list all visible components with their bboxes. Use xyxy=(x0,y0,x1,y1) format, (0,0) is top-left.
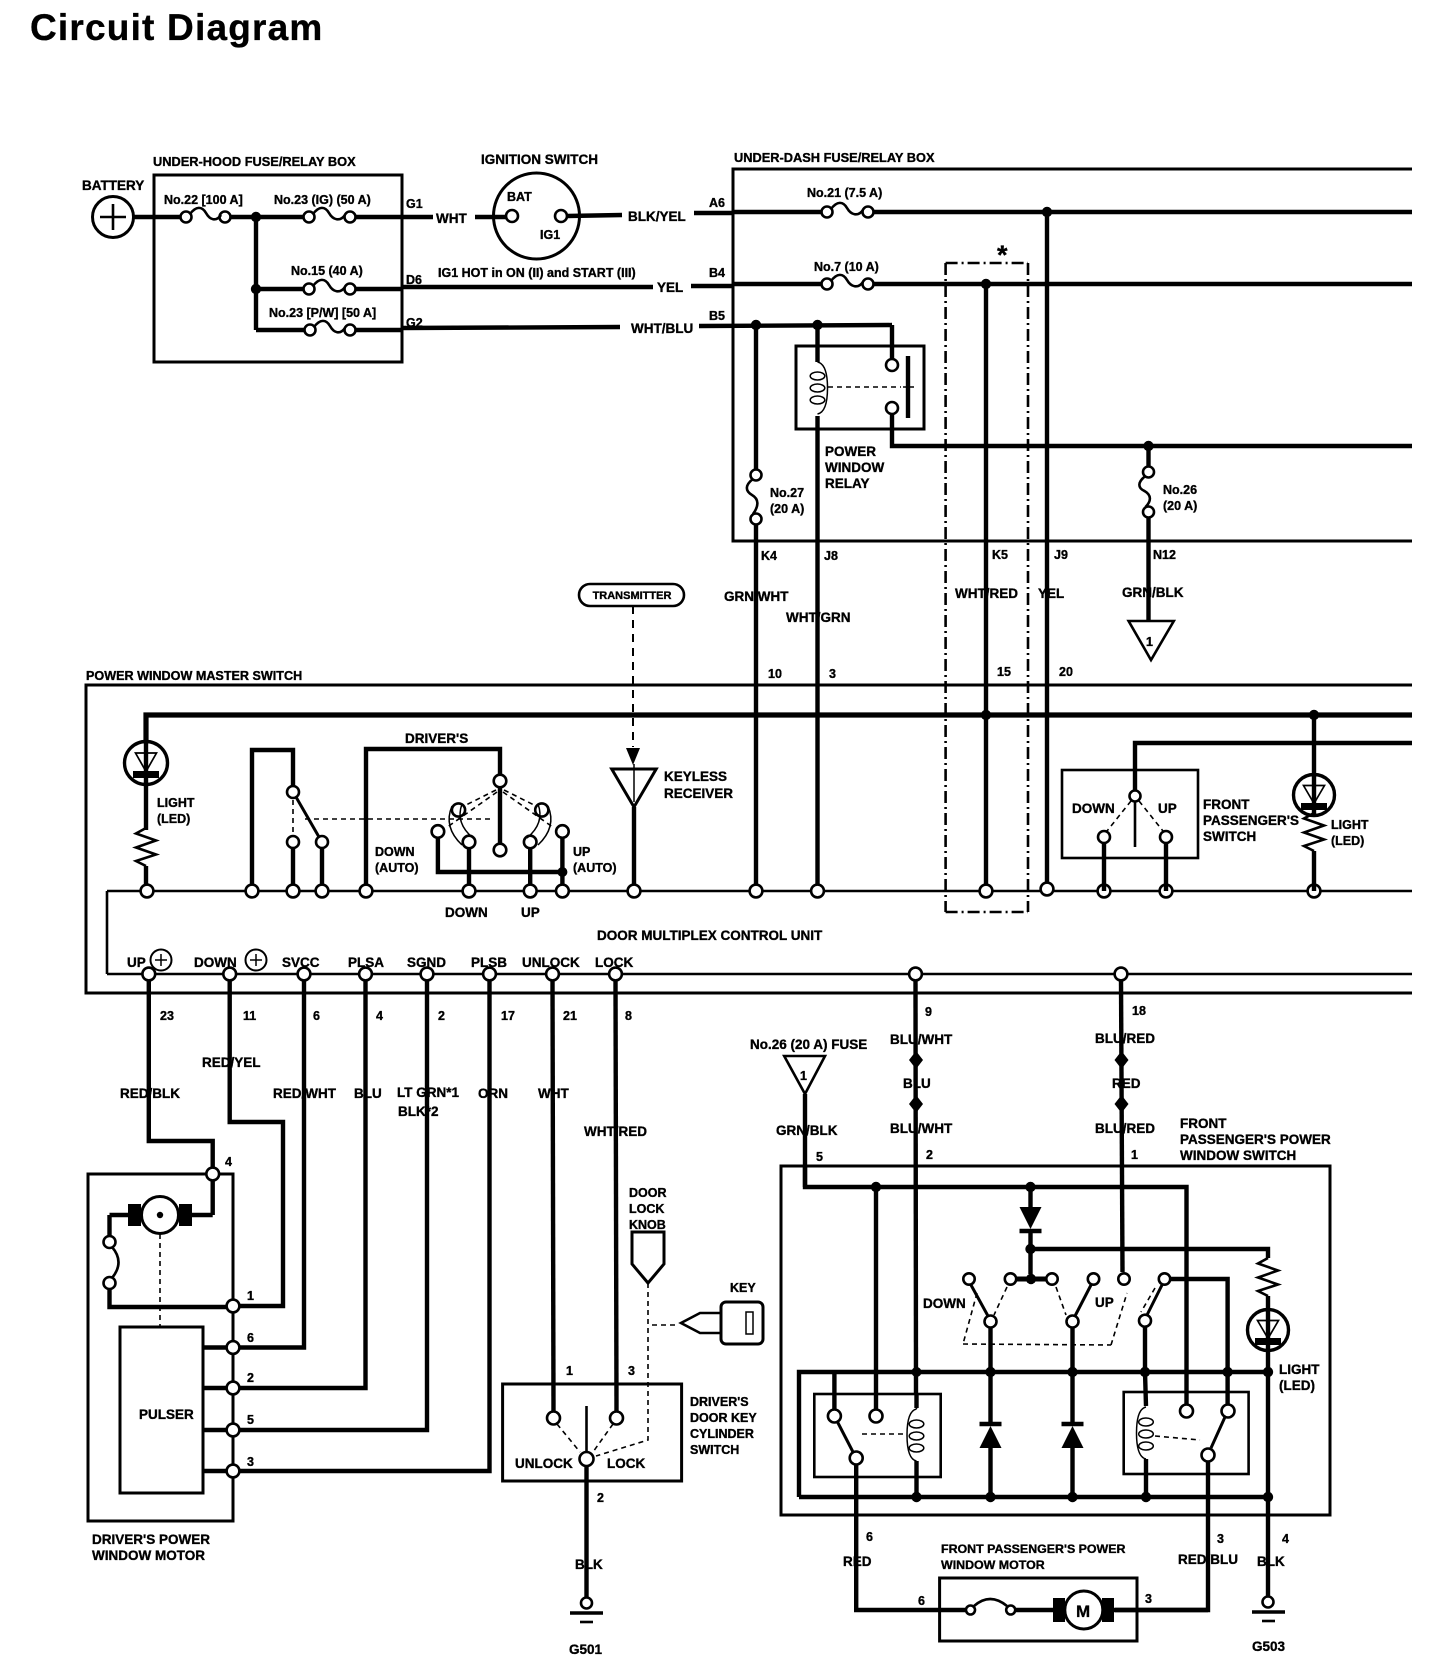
wire J9 to master switch xyxy=(1045,541,1049,889)
svg-text:DOWN: DOWN xyxy=(923,1296,966,1311)
svg-text:2: 2 xyxy=(438,1009,445,1023)
svg-text:KEY: KEY xyxy=(730,1281,756,1295)
svg-text:YEL: YEL xyxy=(1038,586,1064,601)
node K5 on upper bus xyxy=(981,710,991,720)
svg-text:3: 3 xyxy=(1217,1532,1224,1546)
wire diode junction to LED resistor xyxy=(1031,1249,1269,1258)
svg-text:LOCK: LOCK xyxy=(607,1456,645,1471)
svg-text:RED/BLU: RED/BLU xyxy=(1178,1552,1238,1567)
svg-text:N12: N12 xyxy=(1153,548,1176,562)
power window relay xyxy=(796,325,924,541)
svg-text:LIGHT: LIGHT xyxy=(157,796,195,810)
svg-text:3: 3 xyxy=(628,1364,635,1378)
svg-text:IG1: IG1 xyxy=(540,228,560,242)
svg-text:(LED): (LED) xyxy=(1331,834,1364,848)
svg-text:21: 21 xyxy=(563,1009,577,1023)
svg-text:WHT: WHT xyxy=(436,211,467,226)
svg-text:BLU/RED: BLU/RED xyxy=(1095,1031,1155,1046)
LED light passenger side xyxy=(1294,715,1369,891)
svg-text:3: 3 xyxy=(247,1455,254,1469)
key xyxy=(681,1281,763,1344)
svg-text:RED: RED xyxy=(1112,1076,1141,1091)
svg-text:No.26: No.26 xyxy=(1163,483,1197,497)
svg-text:BLK: BLK xyxy=(1257,1554,1285,1569)
wire K5 to master switch xyxy=(984,541,988,891)
svg-text:Circuit Diagram: Circuit Diagram xyxy=(30,7,324,48)
svg-text:BLK/YEL: BLK/YEL xyxy=(628,209,686,224)
diode D3 xyxy=(1062,1372,1084,1497)
nodes on control unit bottom xyxy=(142,968,155,981)
svg-text:No.23 (IG) (50 A): No.23 (IG) (50 A) xyxy=(274,193,371,207)
circuit breaker in passenger motor xyxy=(941,1599,1053,1615)
svg-text:No.21 (7.5 A): No.21 (7.5 A) xyxy=(807,186,882,200)
under-dash fuse/relay box xyxy=(733,150,1412,541)
svg-text:4: 4 xyxy=(376,1009,383,1023)
fuse No.23 (P/W) (50 A) xyxy=(256,306,376,336)
svg-text:6: 6 xyxy=(866,1530,873,1544)
svg-text:1: 1 xyxy=(1146,635,1153,649)
svg-text:PASSENGER'S: PASSENGER'S xyxy=(1203,813,1299,828)
node LED bottom xyxy=(1263,1492,1273,1502)
wire pin9 BLU/WHT down xyxy=(890,980,953,1394)
node feed/diode xyxy=(1025,1182,1035,1192)
svg-text:UP: UP xyxy=(573,845,590,859)
driver's switch feed wire xyxy=(366,749,500,891)
wire B4 to right edge xyxy=(873,282,1412,286)
svg-text:WHT/GRN: WHT/GRN xyxy=(786,610,851,625)
wire N12 xyxy=(1146,541,1150,621)
wire relay2 moving contact output xyxy=(1115,1462,1208,1610)
LED light driver xyxy=(125,715,195,830)
svg-text:17: 17 xyxy=(501,1009,515,1023)
node bus relay2 contact xyxy=(1222,1367,1232,1377)
svg-text:ORN: ORN xyxy=(478,1086,508,1101)
wire pin18 BLU/RED down xyxy=(1095,980,1155,1272)
wire battery to under-hood box xyxy=(133,215,186,219)
wire B5 down to relay contact xyxy=(890,325,894,359)
svg-text:BLU/WHT: BLU/WHT xyxy=(890,1121,953,1136)
wire A6 bus xyxy=(733,210,827,214)
svg-text:LIGHT: LIGHT xyxy=(1279,1362,1320,1377)
svg-text:SWITCH: SWITCH xyxy=(690,1443,739,1457)
transmitter xyxy=(579,584,684,606)
wire A6 to right edge xyxy=(873,210,1412,214)
svg-text:BLU: BLU xyxy=(354,1086,382,1101)
resistor below LED xyxy=(136,828,156,891)
svg-text:10: 10 xyxy=(768,667,782,681)
control unit pin names xyxy=(127,950,633,971)
svg-text:M: M xyxy=(1076,1602,1090,1621)
dashed key linkage xyxy=(652,1324,677,1326)
wire GRN/BLK pin5 xyxy=(803,1094,807,1187)
svg-text:G503: G503 xyxy=(1252,1639,1286,1654)
svg-text:*: * xyxy=(997,240,1008,270)
node A6/J9 junction xyxy=(1042,207,1052,217)
dashed transmitter signal xyxy=(632,606,634,747)
stub down contact A xyxy=(988,1327,992,1372)
svg-text:WHT/RED: WHT/RED xyxy=(955,586,1018,601)
wire LED to pin4 BLK ground xyxy=(1266,1372,1270,1597)
svg-text:No.26 (20 A) FUSE: No.26 (20 A) FUSE xyxy=(750,1037,867,1052)
svg-text:3: 3 xyxy=(1145,1592,1152,1606)
node 3 xyxy=(227,1465,240,1478)
svg-text:No.27: No.27 xyxy=(770,486,804,500)
node bus A xyxy=(985,1367,995,1377)
svg-text:FRONT: FRONT xyxy=(1203,797,1250,812)
svg-text:BAT: BAT xyxy=(507,190,532,204)
lower contacts xyxy=(985,1316,997,1328)
svg-text:(AUTO): (AUTO) xyxy=(375,861,419,875)
svg-text:G1: G1 xyxy=(406,197,423,211)
svg-text:RED/WHT: RED/WHT xyxy=(273,1086,337,1101)
svg-text:No.23 [P/W] [50 A]: No.23 [P/W] [50 A] xyxy=(269,306,376,320)
fuse No.15 (40 A) xyxy=(256,264,363,295)
svg-text:WINDOW MOTOR: WINDOW MOTOR xyxy=(92,1548,205,1563)
node 6 xyxy=(227,1341,240,1354)
svg-text:DOOR MULTIPLEX CONTROL UNIT: DOOR MULTIPLEX CONTROL UNIT xyxy=(597,928,823,943)
svg-text:(AUTO): (AUTO) xyxy=(573,861,617,875)
svg-text:8: 8 xyxy=(625,1009,632,1023)
connector triangle 1 (N12) xyxy=(1129,621,1174,660)
node D2 bottom xyxy=(985,1492,995,1502)
svg-text:UNLOCK: UNLOCK xyxy=(515,1456,573,1471)
svg-text:BLU/RED: BLU/RED xyxy=(1095,1121,1155,1136)
svg-text:GRN/BLK: GRN/BLK xyxy=(776,1123,838,1138)
svg-text:PULSER: PULSER xyxy=(139,1407,194,1422)
svg-text:UP: UP xyxy=(521,905,540,920)
diode D1 (top) xyxy=(1020,1187,1042,1274)
svg-text:2: 2 xyxy=(597,1491,604,1505)
svg-text:RELAY: RELAY xyxy=(825,476,870,491)
svg-text:PASSENGER'S POWER: PASSENGER'S POWER xyxy=(1180,1132,1331,1147)
nodes on control unit top bus xyxy=(141,885,154,898)
svg-text:IGNITION SWITCH: IGNITION SWITCH xyxy=(481,152,598,167)
svg-text:DRIVER'S: DRIVER'S xyxy=(405,731,468,746)
svg-text:1: 1 xyxy=(1131,1148,1138,1162)
feed wire inside switch xyxy=(805,1166,1187,1405)
wire G2 / WHT/BLU xyxy=(355,328,402,332)
keyless receiver antenna xyxy=(612,764,734,891)
node 4 on motor box xyxy=(206,1168,219,1181)
wire J9 vertical xyxy=(1045,212,1049,541)
node B5/K4 junction xyxy=(751,320,761,330)
wire J8 to master switch xyxy=(815,541,819,891)
down(auto)/up(auto) wire xyxy=(375,838,617,891)
wire K4 to master switch xyxy=(754,541,758,891)
svg-text:BLU: BLU xyxy=(903,1076,931,1091)
svg-text:LIGHT: LIGHT xyxy=(1331,818,1369,832)
node 1 xyxy=(227,1300,240,1313)
arrowhead xyxy=(626,748,640,765)
door lock knob xyxy=(629,1186,667,1283)
wire relay1 top-left contact to bus xyxy=(832,1372,836,1409)
wire pin4 to motor node 2 xyxy=(240,980,366,1388)
svg-text:No.7 (10 A): No.7 (10 A) xyxy=(814,260,879,274)
svg-text:(20 A): (20 A) xyxy=(1163,499,1197,513)
svg-text:LOCK: LOCK xyxy=(629,1202,664,1216)
svg-text:DOOR KEY: DOOR KEY xyxy=(690,1411,757,1425)
wire pin17 to motor node 3 xyxy=(240,980,490,1471)
node passenger LED on upper bus xyxy=(1309,710,1319,720)
node feed/relay1 xyxy=(871,1182,881,1192)
node 2 xyxy=(227,1382,240,1395)
svg-text:UP: UP xyxy=(1095,1295,1114,1310)
wire fuse22 to junction xyxy=(230,215,256,219)
resistor passenger LED xyxy=(1258,1258,1278,1296)
svg-text:No.15 (40 A): No.15 (40 A) xyxy=(291,264,363,278)
svg-text:RED/YEL: RED/YEL xyxy=(202,1055,261,1070)
svg-text:WHT/BLU: WHT/BLU xyxy=(631,321,693,336)
wire D6 / YEL xyxy=(355,287,402,291)
svg-text:UNDER-HOOD FUSE/RELAY BOX: UNDER-HOOD FUSE/RELAY BOX xyxy=(153,154,356,169)
svg-text:11: 11 xyxy=(243,1009,256,1023)
wire down contact xyxy=(467,848,471,891)
wire B4 bus xyxy=(733,282,827,286)
svg-text:UNDER-DASH FUSE/RELAY BOX: UNDER-DASH FUSE/RELAY BOX xyxy=(734,150,935,165)
passenger motor M2 xyxy=(1053,1591,1208,1629)
svg-text:RED: RED xyxy=(843,1554,872,1569)
svg-text:J9: J9 xyxy=(1054,548,1068,562)
wire pin21 to key switch xyxy=(553,980,554,1411)
LED light passenger switch xyxy=(1248,1296,1321,1393)
ground G501 xyxy=(569,1598,603,1658)
node 5 xyxy=(227,1424,240,1437)
fuse No.23 (IG) (50 A) xyxy=(274,193,371,223)
svg-text:4: 4 xyxy=(225,1155,232,1169)
svg-text:POWER WINDOW MASTER SWITCH: POWER WINDOW MASTER SWITCH xyxy=(86,669,302,683)
front passenger's switch xyxy=(1062,770,1198,858)
svg-text:DRIVER'S POWER: DRIVER'S POWER xyxy=(92,1532,210,1547)
pulser stubs to nodes xyxy=(203,1345,227,1349)
svg-text:B4: B4 xyxy=(709,266,725,280)
vertical branch under-hood xyxy=(254,217,258,330)
svg-text:WINDOW SWITCH: WINDOW SWITCH xyxy=(1180,1148,1296,1163)
svg-text:SWITCH: SWITCH xyxy=(1203,829,1256,844)
control unit left edge xyxy=(106,891,109,974)
svg-text:BATTERY: BATTERY xyxy=(82,178,144,193)
svg-text:GRN/WHT: GRN/WHT xyxy=(724,589,789,604)
svg-text:CYLINDER: CYLINDER xyxy=(690,1427,754,1441)
svg-text:No.22 [100 A]: No.22 [100 A] xyxy=(164,193,243,207)
svg-text:RECEIVER: RECEIVER xyxy=(664,786,733,801)
svg-text:WHT/RED: WHT/RED xyxy=(584,1124,647,1139)
svg-text:K5: K5 xyxy=(992,548,1008,562)
svg-text:POWER: POWER xyxy=(825,444,876,459)
LED switch feed wire xyxy=(252,750,293,891)
svg-text:K4: K4 xyxy=(761,549,777,563)
wire K5 vertical xyxy=(984,284,988,541)
svg-text:LT GRN*1: LT GRN*1 xyxy=(397,1085,459,1100)
svg-text:FRONT: FRONT xyxy=(1180,1116,1227,1131)
svg-text:1: 1 xyxy=(800,1069,807,1083)
svg-text:2: 2 xyxy=(926,1148,933,1162)
fuse No.26 (20 A) xyxy=(1139,446,1197,541)
node coil2 bottom xyxy=(1141,1492,1151,1502)
svg-text:DOWN: DOWN xyxy=(375,845,415,859)
svg-text:5: 5 xyxy=(816,1150,823,1164)
svg-text:3: 3 xyxy=(829,667,836,681)
wire pin6 to motor node 6 xyxy=(240,980,304,1348)
svg-text:KNOB: KNOB xyxy=(629,1218,666,1232)
ignition switch xyxy=(481,152,598,259)
switch contact row xyxy=(923,1273,1170,1311)
svg-text:DRIVER'S: DRIVER'S xyxy=(690,1395,749,1409)
svg-text:TRANSMITTER: TRANSMITTER xyxy=(593,590,672,602)
svg-text:1: 1 xyxy=(566,1364,573,1378)
node bus B xyxy=(1067,1367,1077,1377)
wire G1 xyxy=(355,215,433,219)
svg-text:KEYLESS: KEYLESS xyxy=(664,769,727,784)
internal bus wire xyxy=(799,1372,1271,1497)
front passenger switch feed wire xyxy=(1135,743,1412,790)
svg-text:4: 4 xyxy=(1282,1532,1289,1546)
fuse No.21 (7.5 A) xyxy=(807,186,882,218)
svg-text:BLK*2: BLK*2 xyxy=(398,1104,439,1119)
fuse No.7 (10 A) xyxy=(814,260,879,290)
battery xyxy=(82,178,144,238)
wire pin2 to motor node 5 xyxy=(240,980,427,1430)
svg-text:(20 A): (20 A) xyxy=(770,502,804,516)
svg-text:(LED): (LED) xyxy=(1279,1378,1315,1393)
svg-text:G501: G501 xyxy=(569,1642,603,1657)
dash-dot option box xyxy=(946,240,1028,912)
node bus LED xyxy=(1263,1367,1273,1377)
wire junction to fuse23IG xyxy=(256,215,309,219)
wires passenger down/up to bus xyxy=(1102,843,1106,891)
control unit top bus xyxy=(107,890,1412,893)
under-hood fuse/relay box xyxy=(153,154,402,362)
wire BLK/YEL xyxy=(567,215,622,216)
fuse No.27 (20 A) xyxy=(747,325,804,541)
driver's motor M1 xyxy=(110,1180,213,1237)
svg-text:15: 15 xyxy=(997,665,1011,679)
svg-text:20: 20 xyxy=(1059,665,1073,679)
svg-text:9: 9 xyxy=(925,1005,932,1019)
upper bus wire xyxy=(146,715,1412,742)
relay RL1 box xyxy=(814,1394,940,1497)
svg-text:DOOR: DOOR xyxy=(629,1186,667,1200)
svg-text:(LED): (LED) xyxy=(157,812,190,826)
node relay-out/No.26 junction xyxy=(1143,441,1153,451)
node bus C xyxy=(1140,1367,1150,1377)
svg-text:2: 2 xyxy=(247,1371,254,1385)
dashed motor-pulser link xyxy=(159,1234,161,1326)
svg-text:WINDOW: WINDOW xyxy=(825,460,884,475)
relay RL2 box xyxy=(1124,1372,1249,1497)
node D3 bottom xyxy=(1067,1492,1077,1502)
svg-text:IG1 HOT in ON (II) and START (: IG1 HOT in ON (II) and START (III) xyxy=(438,266,636,280)
svg-text:GRN/BLK: GRN/BLK xyxy=(1122,585,1184,600)
fuse No.22 (100 A) xyxy=(164,193,243,223)
wire c6 to relay2 contact xyxy=(1170,1279,1228,1404)
power window master switch box xyxy=(86,669,1412,993)
svg-text:BLU/WHT: BLU/WHT xyxy=(890,1032,953,1047)
svg-text:J8: J8 xyxy=(824,549,838,563)
front passenger's power window switch box xyxy=(781,1116,1331,1515)
wire relay1 moving contact output xyxy=(856,1465,941,1610)
bottom bus xyxy=(799,1495,1271,1499)
driver's door key cylinder switch box xyxy=(503,1384,758,1481)
driver's power window motor box xyxy=(88,1174,233,1563)
ground G503 xyxy=(1252,1597,1286,1655)
svg-text:DOWN: DOWN xyxy=(445,905,488,920)
svg-text:18: 18 xyxy=(1132,1004,1146,1018)
node B5/J8 junction xyxy=(812,320,822,330)
front passenger's power window motor box xyxy=(918,1542,1152,1641)
wire feed to relay-1 mid contact xyxy=(874,1187,878,1409)
diode D2 xyxy=(980,1372,1002,1497)
svg-text:FRONT PASSENGER'S POWER: FRONT PASSENGER'S POWER xyxy=(941,1542,1126,1556)
node junction under-hood xyxy=(251,212,261,222)
fuse No.26 triangle connector xyxy=(750,1037,867,1094)
svg-text:6: 6 xyxy=(313,1009,320,1023)
svg-text:YEL: YEL xyxy=(657,280,683,295)
switch levers xyxy=(971,1285,988,1316)
svg-text:23: 23 xyxy=(160,1009,174,1023)
wire pin11 to motor node 1 xyxy=(230,980,283,1306)
wire key switch to ground xyxy=(584,1466,588,1597)
svg-text:UP: UP xyxy=(1158,801,1177,816)
stub up contact C xyxy=(1143,1326,1147,1372)
svg-text:B5: B5 xyxy=(709,309,725,323)
svg-text:5: 5 xyxy=(247,1413,254,1427)
svg-text:1: 1 xyxy=(247,1289,254,1303)
svg-text:WINDOW MOTOR: WINDOW MOTOR xyxy=(941,1558,1045,1572)
stub up contact B xyxy=(1070,1327,1074,1372)
driver's switch xyxy=(432,775,569,857)
svg-text:6: 6 xyxy=(247,1331,254,1345)
node B4/K5 junction xyxy=(981,279,991,289)
svg-text:RED/BLK: RED/BLK xyxy=(120,1086,180,1101)
key switch contacts xyxy=(515,1364,645,1471)
node coil1 bottom xyxy=(911,1492,921,1502)
wire pin23 to motor node 4 xyxy=(149,980,213,1168)
wire relay output xyxy=(892,414,1412,446)
svg-text:A6: A6 xyxy=(709,196,725,210)
dashed knob linkage xyxy=(596,1283,648,1456)
node bus coil1 crossing xyxy=(912,1367,922,1377)
svg-text:DOWN: DOWN xyxy=(1072,801,1115,816)
svg-text:BLK: BLK xyxy=(575,1557,603,1572)
pulser box xyxy=(120,1327,203,1493)
control unit bottom bus xyxy=(107,973,1412,976)
circuit breaker in motor xyxy=(104,1236,228,1307)
dashed lever positions xyxy=(963,1287,1155,1345)
svg-text:UP: UP xyxy=(127,955,146,970)
wire up contact xyxy=(528,848,532,891)
wire pin8 to key switch xyxy=(616,980,617,1411)
node junction 2 xyxy=(251,284,261,294)
svg-text:6: 6 xyxy=(918,1594,925,1608)
LED switch xyxy=(287,786,494,891)
svg-text:WHT: WHT xyxy=(538,1086,569,1101)
